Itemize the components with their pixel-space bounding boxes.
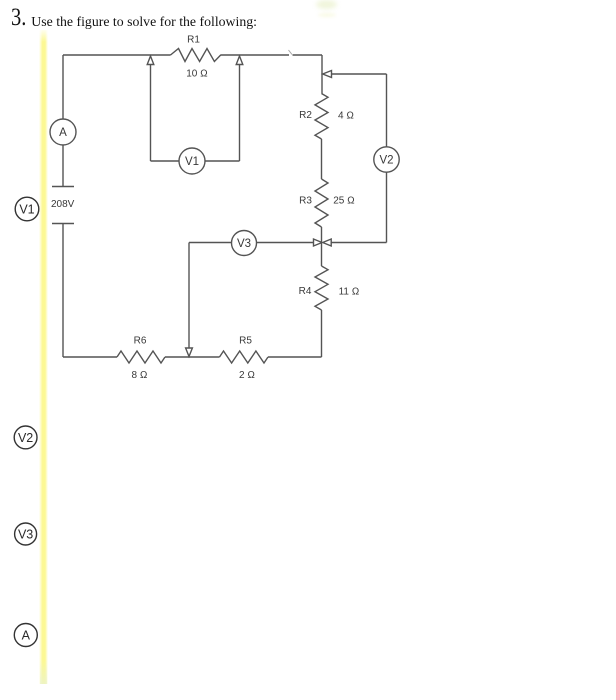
svg-text:8 Ω: 8 Ω xyxy=(131,370,147,381)
svg-text:R1: R1 xyxy=(187,35,200,46)
svg-text:R3: R3 xyxy=(299,196,312,207)
svg-text:R5: R5 xyxy=(239,336,252,347)
svg-text:11 Ω: 11 Ω xyxy=(339,287,360,298)
svg-text:R6: R6 xyxy=(134,336,147,347)
svg-text:V1: V1 xyxy=(19,203,34,217)
svg-text:A: A xyxy=(59,127,67,139)
svg-text:V3: V3 xyxy=(237,238,251,250)
svg-text:R4: R4 xyxy=(299,286,312,297)
svg-text:2 Ω: 2 Ω xyxy=(239,370,255,381)
svg-text:25 Ω: 25 Ω xyxy=(333,196,355,207)
svg-text:A: A xyxy=(22,629,31,643)
svg-text:4 Ω: 4 Ω xyxy=(338,111,354,122)
svg-text:V2: V2 xyxy=(379,155,393,167)
svg-text:208V: 208V xyxy=(51,199,75,210)
svg-text:V2: V2 xyxy=(18,431,33,445)
svg-text:V3: V3 xyxy=(18,528,33,542)
svg-text:10 Ω: 10 Ω xyxy=(186,69,208,80)
svg-text:R2: R2 xyxy=(299,110,312,121)
svg-text:V1: V1 xyxy=(185,156,199,168)
